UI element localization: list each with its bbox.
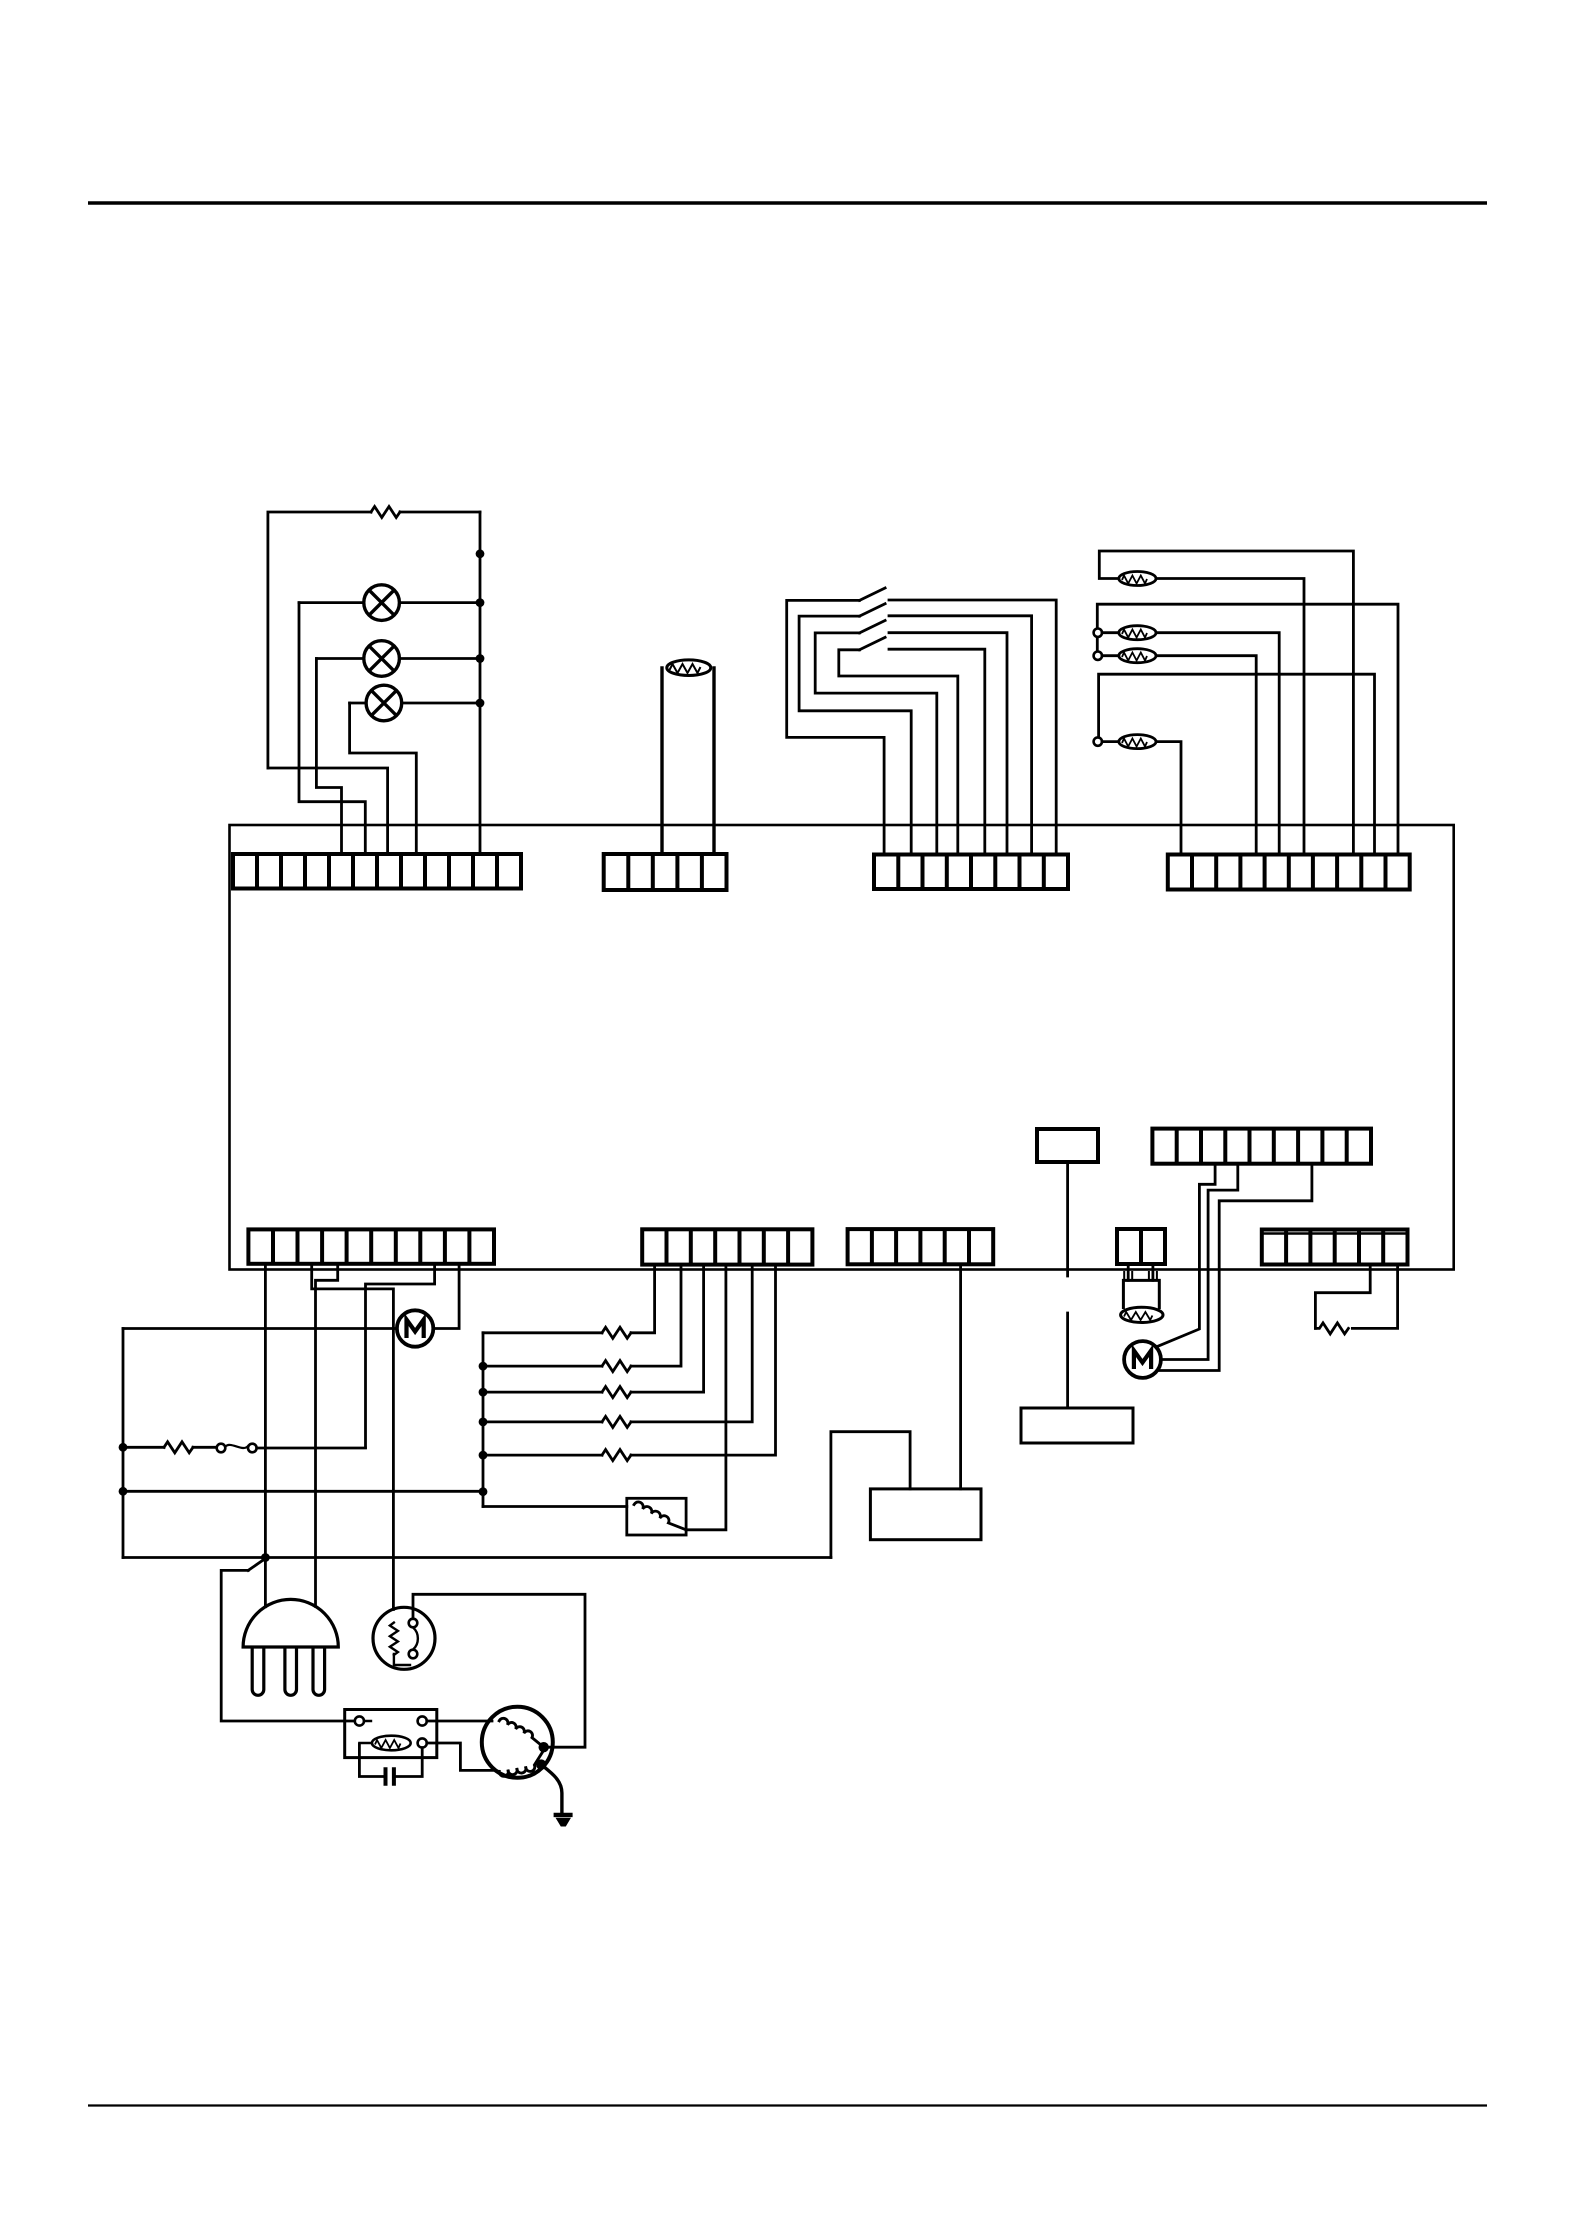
compressor motor M3	[482, 1707, 553, 1778]
wire mains long bottom run	[123, 1556, 831, 1559]
connector strip J10 (inside board, 9 ways)	[1152, 1129, 1371, 1164]
relay box K1 (inside board)	[1037, 1129, 1098, 1162]
node ladder row2	[479, 1362, 488, 1371]
wire lamp right bus	[479, 512, 482, 854]
inductor L1 winding	[634, 1502, 686, 1530]
wire switch-loop S2b	[889, 616, 1032, 855]
resistor R1 (lamp loop top)	[371, 507, 400, 518]
lamp box terminal c	[418, 1738, 427, 1747]
wire L3 leads	[350, 702, 480, 705]
control box H3	[1021, 1408, 1133, 1443]
connector strip J6 (bottom middle, 7 ways)	[642, 1229, 812, 1264]
ground	[554, 1815, 573, 1827]
wire relay K1 lead upper	[1066, 1162, 1069, 1276]
footer rule	[88, 2104, 1487, 2106]
node door switch junction	[261, 1553, 270, 1562]
heater element E4	[1119, 649, 1156, 663]
wire cutout to J5.8 wire	[257, 1447, 366, 1450]
wire row1 to J6.1	[631, 1265, 655, 1333]
wire J5.3 to thermostat	[312, 1264, 394, 1610]
resistor R7	[602, 1450, 631, 1461]
connector strip J3 (top, 8 ways)	[874, 855, 1068, 890]
wire J9.5 to resistor R8	[1315, 1265, 1370, 1329]
fan motor M1	[397, 1310, 433, 1346]
wire sensor box to mains run	[831, 1432, 910, 1558]
wire capacitor right leg	[396, 1748, 422, 1777]
main control board outline	[230, 825, 1454, 1270]
wire J10.4 to fan motor M2	[1161, 1164, 1238, 1360]
wire E2 left to J4	[1099, 551, 1353, 855]
wire switch-loop S1a	[787, 600, 884, 854]
connector strip J8 (bottom, 2 ways, oven lamp)	[1117, 1229, 1165, 1264]
lamp L3	[366, 685, 402, 721]
resistor R5	[602, 1387, 631, 1398]
wire J5.8 to fuse line	[366, 1264, 435, 1448]
wire J10.3 to fan motor M2	[1156, 1164, 1215, 1347]
node ladder feed	[479, 1487, 488, 1496]
wire ladder row5 left	[483, 1454, 602, 1457]
resistor R8	[1315, 1323, 1348, 1334]
wire mains left bus	[122, 1329, 125, 1558]
thermostat B1 (sensor + contact)	[373, 1607, 435, 1669]
node ladder row4	[479, 1418, 488, 1427]
connector strip J1 (top left, 12 ways)	[233, 854, 521, 889]
wire L3 to connector	[350, 703, 417, 854]
lamp E6 in box	[372, 1736, 411, 1751]
lamp L1	[364, 585, 400, 621]
terminal E4 left	[1094, 652, 1102, 660]
wire J5.9 to fan motor M1	[433, 1264, 459, 1329]
wire switch-loop S4b	[889, 649, 985, 854]
wire switch-loop S3a	[815, 633, 937, 855]
connector strip J4 (top right, 10 ways)	[1168, 855, 1410, 890]
wire lamp to capacitor left	[359, 1744, 383, 1777]
lamp box terminal a	[355, 1716, 364, 1725]
node lamp L1 junction	[476, 598, 485, 607]
node lamp L2 junction	[476, 654, 485, 663]
node fuse tap	[119, 1443, 128, 1452]
wire row2 to J6.2	[631, 1265, 681, 1367]
fan motor M2	[1124, 1341, 1161, 1378]
wire E3/E4 common feed	[1097, 604, 1398, 854]
header rule	[88, 201, 1487, 204]
wire row4 to J6.5	[631, 1265, 752, 1422]
resistor R3	[602, 1327, 631, 1338]
wire switch-loop S3b	[889, 633, 1007, 855]
node compressor common	[539, 1742, 549, 1752]
wire M1 to mains bus	[123, 1327, 397, 1330]
switch SW3 contact	[860, 621, 886, 633]
switch SW1 contact	[860, 588, 886, 600]
wire switch-loop S4a	[839, 650, 958, 855]
wire resistor to thermal cutout	[193, 1446, 217, 1449]
resistor R2 (fuse branch)	[164, 1442, 193, 1453]
wire ladder row2 left	[483, 1365, 602, 1368]
wire switch to lamp box	[221, 1570, 354, 1721]
heater element E1 (tubular, top middle)	[662, 660, 714, 854]
node on lamp bus	[476, 549, 485, 558]
wire R8 to J9.6	[1352, 1265, 1397, 1329]
heater element E5	[1119, 735, 1156, 749]
wire row3 to J6.3	[631, 1265, 704, 1393]
switch SW4 contact	[860, 637, 886, 649]
node ladder feed tap	[119, 1487, 128, 1496]
connector strip J9 (bottom right, 6 ways)	[1262, 1230, 1408, 1265]
wire lamp-loop left frame	[268, 512, 371, 768]
connector strip J2 (top, 5 ways)	[604, 854, 727, 890]
mains plug P1	[243, 1599, 338, 1695]
lamp box terminal b	[418, 1716, 427, 1725]
wire E4 leads	[1102, 656, 1256, 855]
wire thermostat to compressor loop	[413, 1594, 585, 1747]
wire earth lead	[541, 1765, 562, 1813]
wire ladder bus	[482, 1333, 485, 1507]
wire fuse branch	[123, 1446, 164, 1449]
wire E5 leads	[1102, 742, 1181, 855]
node lamp L3 junction	[476, 699, 485, 708]
wire E5 common feed	[1099, 674, 1375, 854]
connector strip J7 (bottom, 6 ways)	[848, 1229, 994, 1264]
wire J5.1 to plug (L)	[264, 1264, 267, 1607]
wire switch-loop S1b	[889, 600, 1056, 855]
capacitor C1	[386, 1769, 394, 1784]
wire ladder row3 left	[483, 1391, 602, 1394]
inductor box L1	[627, 1498, 686, 1535]
resistor R6	[602, 1416, 631, 1427]
wire frame to connector	[268, 768, 388, 854]
wire ladder row1 left	[483, 1331, 602, 1334]
terminal E5 left	[1094, 737, 1102, 745]
wire coil to J6.4	[686, 1265, 726, 1530]
wire E3 leads	[1102, 633, 1279, 855]
thermal cutout F1	[217, 1444, 257, 1453]
wire ladder feed	[123, 1490, 483, 1493]
wire L2 to connector	[316, 659, 341, 855]
wire lamp box to compressor main	[427, 1720, 492, 1723]
node ladder row3	[479, 1388, 488, 1397]
wire switch-loop S2a	[799, 616, 911, 854]
wire L1 to connector	[299, 603, 365, 854]
wire lamp internal left	[359, 1721, 372, 1743]
wire J5.4 to plug (N)	[316, 1264, 338, 1607]
wire J7.5 to oven sensor box	[959, 1264, 962, 1489]
node ladder row5	[479, 1451, 488, 1460]
wire lamp box to compressor aux	[427, 1743, 496, 1770]
wire resistor to right bus	[400, 511, 480, 514]
resistor R4	[602, 1361, 631, 1372]
wire bus to coil box	[483, 1505, 627, 1508]
connector strip J5 (bottom left, 10 ways)	[248, 1229, 494, 1263]
switch SW2 contact	[860, 604, 886, 616]
wire L1 leads	[299, 601, 480, 604]
wire E2 right to J4	[1156, 579, 1304, 855]
heater element E2 (top right)	[1119, 572, 1156, 586]
oven lamp box H1	[345, 1710, 437, 1758]
oven lamp E7	[1121, 1280, 1163, 1322]
wire L2 leads	[316, 657, 480, 660]
door switch arm	[248, 1559, 265, 1571]
wire row5 to J6.6	[631, 1265, 776, 1456]
wire relay K1 lead lower	[1066, 1313, 1069, 1406]
lamp L2	[364, 641, 400, 677]
wire ladder row4 left	[483, 1421, 602, 1424]
wire J10.7 to fan motor M2	[1158, 1164, 1312, 1371]
sensor box H2	[870, 1489, 981, 1540]
heater element E3	[1119, 626, 1156, 640]
node compressor earth tap	[536, 1759, 546, 1769]
terminal E3 left	[1094, 629, 1102, 637]
wire J8 pins to oven lamp	[1124, 1264, 1157, 1280]
